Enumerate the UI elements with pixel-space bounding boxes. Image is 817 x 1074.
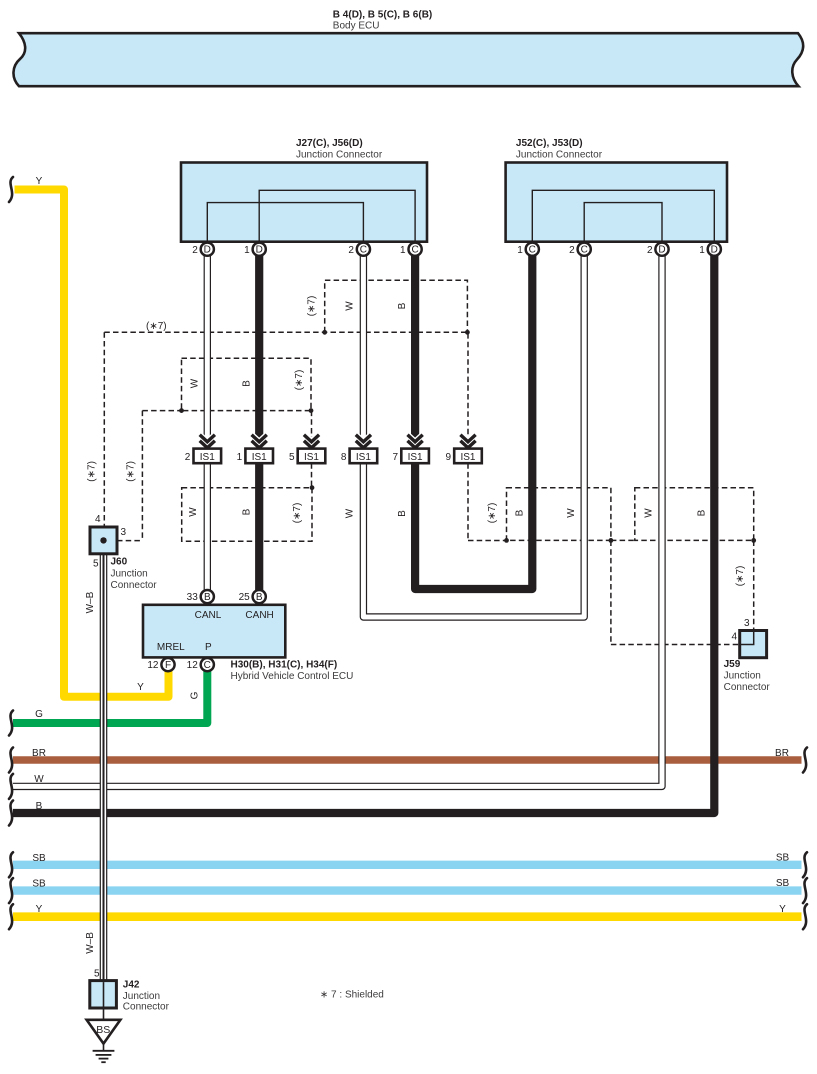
svg-text:∗ 7 : Shielded: ∗ 7 : Shielded <box>320 989 384 1000</box>
J52 pin 2(D) <box>655 243 668 256</box>
J59 internal link pin3-pin4 <box>740 631 754 645</box>
svg-text:2: 2 <box>569 245 575 256</box>
J52 internal bus pin 1C-1D <box>532 190 714 241</box>
junction connector J60 <box>90 527 117 554</box>
svg-text:4: 4 <box>731 632 737 643</box>
svg-text:W–B: W–B <box>85 932 96 954</box>
shield drain IS1 pin 9 vertical <box>467 333 469 437</box>
svg-text:BR: BR <box>775 748 789 759</box>
break symbol wire BR left <box>9 748 13 773</box>
J52 pin 1(C) <box>526 243 539 256</box>
wire B black J27 pin 1C to splice IS1 7 <box>411 255 419 438</box>
ECU pin 12 P circle <box>201 658 214 671</box>
svg-text:P: P <box>205 642 212 653</box>
svg-text:B: B <box>514 509 525 516</box>
break symbol wire SB1 right <box>803 852 807 877</box>
svg-text:B: B <box>697 509 708 516</box>
svg-text:SB: SB <box>32 879 46 890</box>
connector IS1 pin 2 <box>194 449 222 464</box>
J27 internal bus pin 1D-1C <box>259 190 415 241</box>
svg-text:Junction: Junction <box>123 991 160 1002</box>
svg-text:9: 9 <box>445 452 451 463</box>
svg-text:1: 1 <box>237 452 243 463</box>
wire B black splice IS1 7 to J52 pin 1C U-turn <box>415 255 532 589</box>
svg-text:(∗7): (∗7) <box>292 503 303 524</box>
splice point IS1 pin 1 chevron arrows <box>252 435 267 442</box>
wire Y yellow from ECU pin MREL <box>15 190 169 697</box>
svg-text:(∗7): (∗7) <box>146 321 167 332</box>
svg-text:C: C <box>411 245 418 256</box>
J27 pin 1(C) <box>409 243 422 256</box>
svg-text:CANL: CANL <box>195 610 222 621</box>
svg-text:Y: Y <box>36 176 43 187</box>
svg-text:W: W <box>189 378 200 388</box>
svg-text:SB: SB <box>776 878 790 889</box>
svg-text:J27(C), J56(D): J27(C), J56(D) <box>296 138 363 149</box>
svg-text:(∗7): (∗7) <box>487 503 498 524</box>
svg-text:IS1: IS1 <box>408 452 423 463</box>
break symbol wire SB2 left <box>9 878 13 903</box>
svg-text:SB: SB <box>776 853 790 864</box>
J52 pin 2(C) <box>578 243 591 256</box>
J27 pin 1(D) <box>253 243 266 256</box>
J27 pin 2(C) <box>357 243 370 256</box>
svg-text:B: B <box>242 508 253 515</box>
splice point IS1 pin 8 chevron arrows <box>356 435 371 442</box>
svg-text:C: C <box>581 245 588 256</box>
svg-text:Connector: Connector <box>123 1001 170 1012</box>
shield drain IS1 pin 5 vertical <box>311 411 313 437</box>
break symbol wire Y bottom right <box>803 904 807 929</box>
J42 internal wire line and stub to ground <box>103 982 105 1020</box>
junction connector J52(C),J53(D) box <box>506 163 727 242</box>
wire B black splice IS1 1 to ECU CANH <box>255 463 263 590</box>
svg-text:W–B: W–B <box>85 591 96 613</box>
break symbol wire B left <box>9 801 13 826</box>
J52 pin 1(D) <box>708 243 721 256</box>
svg-text:B: B <box>36 801 43 812</box>
shield line vertical to J59 pin 4 <box>610 541 612 645</box>
svg-text:(∗7): (∗7) <box>294 370 305 391</box>
wire W-B white-black J60 to J42 <box>100 554 108 981</box>
svg-text:D: D <box>658 245 665 256</box>
ECU pin 25 CANH circle <box>253 590 266 603</box>
junction connector J59 <box>740 631 767 658</box>
svg-text:H30(B), H31(C), H34(F): H30(B), H31(C), H34(F) <box>231 660 338 671</box>
wire B black J27 pin 1D to splice IS1 1 <box>255 255 263 438</box>
svg-text:Hybrid Vehicle Control ECU: Hybrid Vehicle Control ECU <box>231 671 354 682</box>
shield line horizontal to J59 pin 4 <box>611 644 740 646</box>
svg-text:G: G <box>35 709 43 720</box>
wire Y horizontal bottom <box>13 912 802 921</box>
ground symbol BS <box>87 1020 121 1044</box>
connector IS1 pin 8 <box>350 449 378 464</box>
svg-text:Y: Y <box>36 904 43 915</box>
shield line horizontal upper-left <box>142 410 181 412</box>
splice point IS1 pin 7 chevron arrows <box>408 435 423 442</box>
svg-text:BR: BR <box>32 748 46 759</box>
splice point IS1 pin 2 chevron arrows <box>200 435 215 442</box>
svg-text:Junction Connector: Junction Connector <box>516 150 603 161</box>
wire W white J52 pin 2D to left edge <box>13 255 662 786</box>
svg-text:1: 1 <box>400 245 406 256</box>
svg-text:G: G <box>190 691 201 699</box>
svg-text:IS1: IS1 <box>200 452 215 463</box>
svg-text:B: B <box>397 510 408 517</box>
svg-text:25: 25 <box>239 592 251 603</box>
svg-text:7: 7 <box>393 452 399 463</box>
svg-text:1: 1 <box>699 245 705 256</box>
wire G green from ECU pin P <box>13 669 207 723</box>
wire W white splice IS1 2 to ECU CANL <box>204 463 211 590</box>
svg-text:BS: BS <box>96 1024 110 1036</box>
shield line vertical to J59 pin 3 <box>753 541 755 631</box>
node J60 junction dot <box>100 537 106 543</box>
wire W white J27 pin 2D to splice IS1 2 <box>204 255 211 437</box>
svg-text:Junction: Junction <box>111 569 148 580</box>
shield line vertical to J60 pin 4 <box>103 332 105 527</box>
svg-text:2: 2 <box>192 245 198 256</box>
svg-text:Y: Y <box>779 904 786 915</box>
svg-text:J42: J42 <box>123 980 140 991</box>
svg-text:(∗7): (∗7) <box>126 461 137 482</box>
break symbol wire Y top left <box>9 177 13 202</box>
connector IS1 pin 1 <box>245 449 273 464</box>
shield line vertical x142 <box>141 411 143 541</box>
svg-text:B: B <box>204 592 211 603</box>
svg-text:J60: J60 <box>111 557 128 568</box>
svg-text:J59: J59 <box>724 659 741 670</box>
svg-text:8: 8 <box>341 452 347 463</box>
connector IS1 pin 9 <box>454 449 482 464</box>
svg-text:W: W <box>644 508 655 518</box>
ECU block B4/B5/B6 Body ECU band <box>13 33 803 86</box>
svg-text:2: 2 <box>348 245 354 256</box>
svg-text:Body ECU: Body ECU <box>333 21 380 32</box>
svg-text:(∗7): (∗7) <box>735 566 746 587</box>
svg-text:IS1: IS1 <box>304 452 319 463</box>
shield box A around W,B above IS1 left <box>182 358 312 410</box>
connector IS1 pin 5 <box>298 449 326 464</box>
wire BR brown horizontal <box>13 756 802 763</box>
ECU pin 33 CANL circle <box>201 590 214 603</box>
svg-text:D: D <box>204 245 211 256</box>
svg-text:Y: Y <box>137 682 144 693</box>
svg-text:3: 3 <box>744 618 750 629</box>
shield line (*7) long horizontal <box>104 331 467 333</box>
svg-text:4: 4 <box>95 514 101 525</box>
svg-text:5: 5 <box>94 969 100 980</box>
splice point IS1 pin 5 chevron arrows <box>304 435 319 442</box>
splice point IS1 pin 9 chevron arrows <box>460 435 475 442</box>
svg-text:D: D <box>256 245 263 256</box>
svg-text:IS1: IS1 <box>356 452 371 463</box>
shield box D around B,W middle right <box>507 488 611 541</box>
junction connector J27(C),J56(D) box <box>181 163 427 242</box>
wire W white J27 pin 2C to splice IS1 8 <box>360 255 367 437</box>
break symbol wire SB2 right <box>803 878 807 903</box>
svg-text:C: C <box>204 660 211 671</box>
svg-text:W: W <box>34 774 44 785</box>
svg-text:W: W <box>345 301 356 311</box>
junction dots on shield lines <box>179 408 184 413</box>
svg-text:B: B <box>256 592 263 603</box>
svg-text:IS1: IS1 <box>460 452 475 463</box>
svg-text:Junction: Junction <box>724 671 761 682</box>
shield box C around W,B below IS1 left <box>182 488 312 542</box>
svg-text:F: F <box>165 660 171 671</box>
junction connector J42 <box>90 981 117 1008</box>
ECU pin 12 MREL circle <box>161 658 174 671</box>
svg-text:B 4(D), B 5(C), B 6(B): B 4(D), B 5(C), B 6(B) <box>333 9 432 20</box>
svg-text:3: 3 <box>121 527 127 538</box>
svg-text:CANH: CANH <box>245 610 273 621</box>
svg-text:(∗7): (∗7) <box>307 296 318 317</box>
break symbol wire SB1 left <box>9 852 13 877</box>
wire B black J52 pin 1D to left edge <box>13 255 714 813</box>
shield box B around W,B upper right <box>325 280 468 332</box>
svg-text:J52(C), J53(D): J52(C), J53(D) <box>516 138 583 149</box>
shield line J60 pin 3 horizontal <box>117 540 142 542</box>
svg-text:2: 2 <box>647 245 653 256</box>
J27 pin 2(D) <box>201 243 214 256</box>
svg-text:W: W <box>188 507 199 517</box>
svg-text:B: B <box>397 302 408 309</box>
shield line horizontal right <box>468 540 507 542</box>
wire SB horizontal 2 <box>13 886 802 894</box>
svg-text:C: C <box>529 245 536 256</box>
svg-text:Junction Connector: Junction Connector <box>296 150 383 161</box>
svg-text:D: D <box>711 245 718 256</box>
svg-text:W: W <box>566 508 577 518</box>
svg-text:SB: SB <box>32 853 46 864</box>
J27 internal bus pin 2D-2C <box>207 203 363 242</box>
svg-text:5: 5 <box>93 559 99 570</box>
connector IS1 pin 7 <box>401 449 429 464</box>
break symbol wire Y bottom left <box>9 904 13 929</box>
break symbol wire W left <box>9 774 13 799</box>
svg-text:IS1: IS1 <box>252 452 267 463</box>
svg-text:12: 12 <box>187 660 199 671</box>
break symbol wire G left <box>9 711 13 736</box>
wire SB horizontal 1 <box>13 861 802 869</box>
svg-text:33: 33 <box>187 592 199 603</box>
svg-text:B: B <box>242 380 253 387</box>
ECU H30/H31/H34 Hybrid Vehicle Control ECU box <box>143 605 285 658</box>
svg-text:(∗7): (∗7) <box>87 461 98 482</box>
svg-text:1: 1 <box>517 245 523 256</box>
J52 internal bus pin 2C-2D <box>584 203 662 242</box>
svg-text:2: 2 <box>185 452 191 463</box>
svg-text:Connector: Connector <box>111 580 158 591</box>
svg-text:W: W <box>345 508 356 518</box>
svg-text:5: 5 <box>289 452 295 463</box>
svg-text:MREL: MREL <box>157 642 185 653</box>
svg-text:12: 12 <box>147 660 159 671</box>
svg-text:Connector: Connector <box>724 682 771 693</box>
shield box E around W,B far right <box>635 488 754 541</box>
svg-text:1: 1 <box>244 245 250 256</box>
wire W white splice IS1 8 to J52 pin 2C U-turn <box>363 255 584 617</box>
svg-text:C: C <box>360 245 367 256</box>
break symbol wire BR right <box>803 748 807 773</box>
